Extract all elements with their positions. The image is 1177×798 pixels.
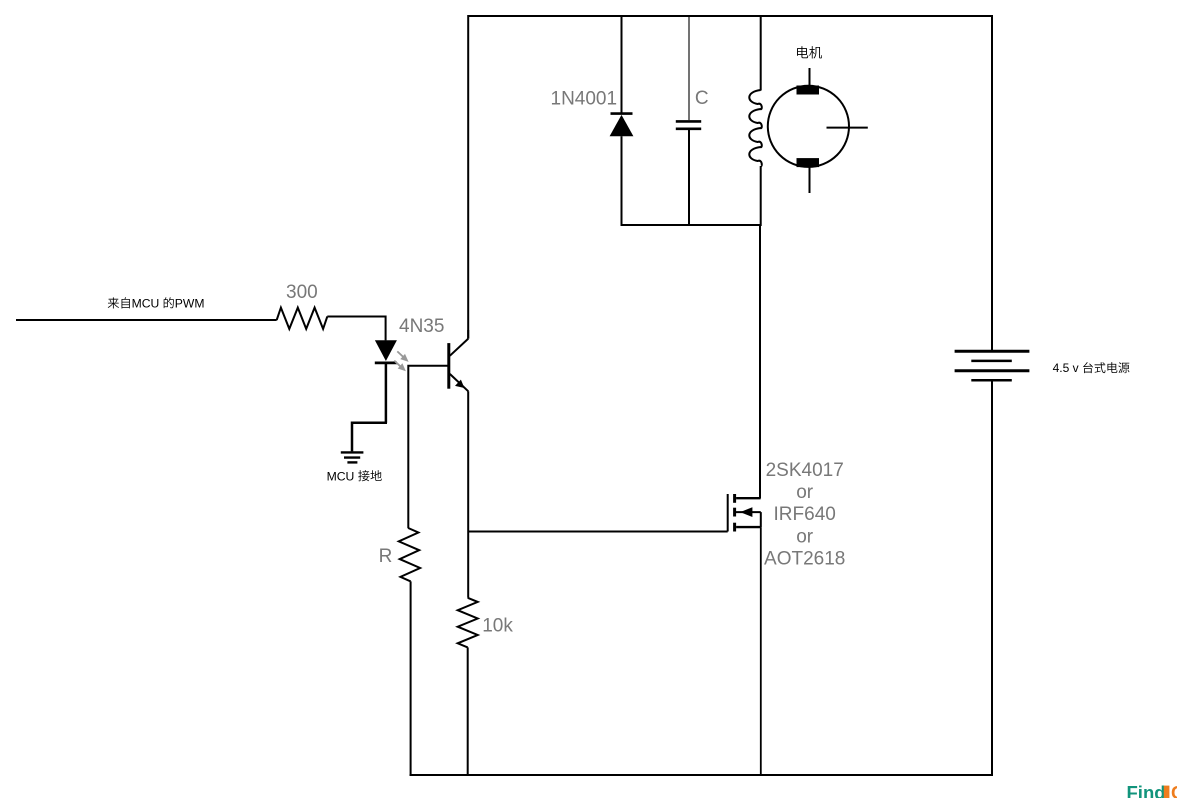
wire capacitor branch top (thin)	[688, 15, 690, 120]
wire junction rail (diode/cap/motor bottoms)	[621, 224, 761, 226]
FindIC logo	[1127, 782, 1177, 798]
svg-text:or: or	[796, 482, 814, 503]
svg-text:C: C	[695, 88, 709, 109]
svg-text:4N35: 4N35	[399, 316, 444, 337]
wire collector up to rail	[467, 330, 469, 339]
light arrows (LED to phototransistor)	[394, 351, 408, 371]
MOSFET Q1 (N-channel)	[728, 494, 761, 532]
label 电机 (motor)	[797, 46, 822, 58]
wire emitter down	[467, 391, 469, 598]
svg-text:10k: 10k	[482, 616, 513, 637]
wire diode branch top	[621, 15, 623, 114]
ground MCU	[341, 452, 364, 462]
wire base to R	[408, 366, 449, 529]
svg-text:PWM: PWM	[175, 297, 205, 311]
wire source to bottom rail	[760, 527, 762, 776]
wire LED cathode down	[385, 363, 388, 423]
capacitor C	[676, 121, 701, 128]
wire right vertical (battery - to bottom rail)	[991, 380, 993, 775]
svg-text:300: 300	[286, 282, 318, 303]
svg-text:R: R	[379, 546, 393, 567]
wire to MCU ground	[352, 423, 387, 452]
wire PWM input	[16, 319, 277, 321]
label 来自MCU 的PWM	[108, 297, 205, 311]
wire right vertical (top rail to battery +)	[991, 15, 993, 351]
wire 10k to bottom rail	[467, 647, 469, 776]
wire R to bottom rail	[410, 581, 412, 776]
diode D1 1N4001 (freewheel, pointing up)	[610, 114, 634, 137]
label 4.5 v battery	[1053, 361, 1130, 375]
svg-text:AOT2618: AOT2618	[764, 549, 845, 570]
svg-text:2SK4017: 2SK4017	[766, 460, 844, 481]
resistor 10k	[458, 598, 478, 648]
svg-text:or: or	[796, 526, 814, 547]
wire top rail V+	[468, 15, 992, 17]
svg-text:MCU: MCU	[132, 297, 160, 311]
svg-text:Find: Find	[1127, 782, 1166, 798]
svg-text:C: C	[1171, 782, 1177, 798]
LED of optocoupler (anode top)	[375, 340, 397, 363]
wire left vertical (top rail to opto collector)	[467, 15, 469, 339]
svg-text:1N4001: 1N4001	[551, 88, 618, 109]
wire drain riser (junction to MOSFET drain)	[759, 225, 761, 498]
wire motor branch top	[760, 15, 762, 91]
label MCU 接地	[327, 469, 382, 483]
svg-text:4.5 v: 4.5 v	[1053, 361, 1079, 375]
inductor L (motor winding)	[749, 90, 761, 166]
motor M1	[768, 68, 868, 193]
battery B1 4.5v	[955, 351, 1030, 380]
wire gate (emitter node to MOSFET gate)	[468, 531, 728, 533]
wire diode branch bottom	[621, 136, 623, 226]
svg-text:MCU: MCU	[327, 469, 355, 483]
phototransistor of 4N35	[449, 339, 469, 392]
wire bottom rail (ground return)	[410, 774, 994, 776]
resistor R	[399, 528, 420, 581]
resistor 300	[277, 308, 328, 329]
wire capacitor branch bottom	[688, 130, 690, 226]
label MOSFET options	[764, 460, 845, 570]
wire motor branch below coil	[760, 166, 762, 226]
svg-text:IRF640: IRF640	[774, 504, 836, 525]
wire resistor to LED	[327, 317, 385, 341]
